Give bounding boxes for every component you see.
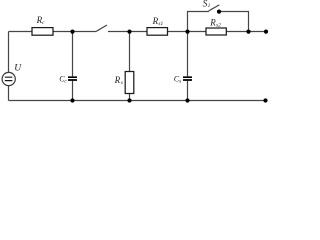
- svg-text:c: c: [64, 78, 67, 84]
- svg-text:c: c: [42, 20, 45, 26]
- svg-text:s2: s2: [216, 22, 221, 28]
- svg-text:s1: s1: [158, 21, 163, 27]
- svg-text:R: R: [114, 75, 121, 85]
- svg-text:U: U: [14, 64, 22, 74]
- svg-text:s: s: [121, 80, 123, 86]
- svg-text:s: s: [179, 79, 181, 85]
- svg-text:1: 1: [208, 3, 211, 9]
